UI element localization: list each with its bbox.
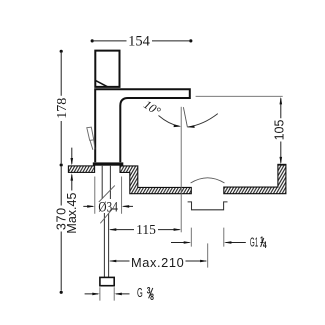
supply pipe [104, 213, 108, 277]
phantom lever (lowered position) [87, 127, 95, 150]
dim G1-1/4 [171, 242, 246, 244]
svg-text:Max.210: Max.210 [131, 255, 184, 270]
svg-text:G1: G1 [250, 236, 259, 250]
svg-text:178: 178 [55, 98, 70, 119]
break slash 1 [99, 186, 115, 203]
extension ticks dia34 [95, 177, 122, 214]
break slash 2 [100, 208, 113, 223]
dim 154 [94, 40, 189, 42]
handle lever top [95, 51, 119, 87]
extension ticks G3/8 [100, 287, 114, 300]
pop-up waste dome [191, 178, 225, 183]
dim dia 34 [83, 205, 133, 207]
extension: drain centre [207, 243, 209, 267]
faucet body and spout outline [95, 89, 190, 162]
svg-text:G: G [137, 286, 143, 301]
G3/8 connector block [100, 277, 114, 285]
dim 115 [110, 229, 179, 231]
dim Max.210 [110, 260, 206, 262]
dim G3/8 [85, 293, 130, 295]
basin rim step right of hole [120, 166, 191, 194]
dim Max.45 [71, 148, 73, 191]
svg-text:4: 4 [263, 240, 267, 250]
extension: 10 deg tilted line [183, 107, 187, 127]
dim 105 [280, 98, 282, 163]
right wall top cap [277, 164, 286, 166]
svg-text:8: 8 [150, 292, 154, 302]
svg-text:115: 115 [136, 222, 156, 237]
base plate [93, 162, 124, 165]
countertop left slab [68, 166, 94, 173]
extension: spout outlet vertical [180, 107, 182, 233]
extension: spout level to 105 dim [196, 95, 283, 97]
dim 370 [60, 167, 62, 291]
handle notch line [95, 80, 107, 86]
svg-text:Max.45: Max.45 [65, 193, 79, 234]
extension ticks G1-1/4 [191, 228, 224, 247]
svg-text:105: 105 [272, 120, 286, 141]
supply studs below base [102, 166, 110, 199]
svg-text:Ø34: Ø34 [98, 198, 118, 215]
drain body below [188, 202, 228, 210]
dim 178 [60, 53, 62, 163]
basin bottom right of drain + right wall [224, 165, 286, 194]
svg-text:154: 154 [128, 33, 151, 49]
